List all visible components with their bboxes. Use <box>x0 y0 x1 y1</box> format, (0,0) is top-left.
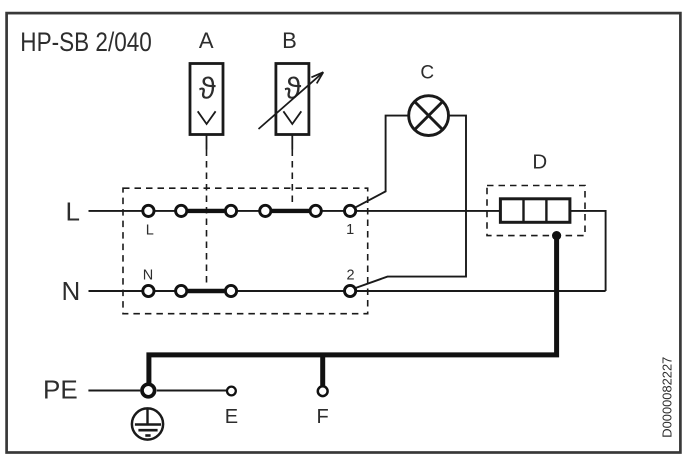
svg-text:HP-SB 2/040: HP-SB 2/040 <box>20 27 152 57</box>
wire PE to terminal E <box>157 390 227 392</box>
terminal L row 3 <box>225 205 236 216</box>
svg-text:ϑ: ϑ <box>199 71 216 105</box>
svg-text:1: 1 <box>346 222 354 238</box>
PE junction dot on heater D <box>552 231 561 240</box>
wire L <box>89 210 501 212</box>
wire N <box>89 290 606 292</box>
control link from B (dashed) <box>291 135 293 207</box>
switch contact (closed) N pole <box>188 289 225 293</box>
svg-text:L: L <box>66 196 80 226</box>
wire: lamp C to terminal 2 (N) <box>356 116 466 288</box>
svg-text:F: F <box>316 406 328 428</box>
terminal F <box>318 386 328 396</box>
terminal N row 3 <box>225 285 236 296</box>
switch enclosure (dashed) <box>123 188 368 314</box>
svg-text:2: 2 <box>347 268 355 284</box>
wire: heater D to N <box>570 211 606 291</box>
terminal N (input) <box>143 285 154 296</box>
wire: lamp C to terminal 1 (L) <box>356 116 410 208</box>
terminal 2 (output) <box>345 285 356 296</box>
PE branch to F <box>320 353 325 387</box>
terminal N row 2 <box>176 285 187 296</box>
terminal 1 (output) <box>345 205 356 216</box>
protective earth symbol <box>132 408 163 439</box>
svg-text:N: N <box>143 268 153 284</box>
svg-text:A: A <box>199 28 214 53</box>
svg-text:C: C <box>420 63 434 84</box>
terminal L (input) <box>143 205 154 216</box>
PE earthing conductor (thick) <box>149 237 557 384</box>
terminal L row 2 <box>176 205 187 216</box>
svg-text:D0000082227: D0000082227 <box>660 357 675 438</box>
svg-text:N: N <box>62 276 81 306</box>
svg-text:B: B <box>282 28 297 53</box>
enclosure D (dashed) <box>487 186 585 236</box>
terminal E <box>227 387 236 396</box>
terminal L row 5 <box>310 205 321 216</box>
terminal L row 4 <box>260 205 271 216</box>
svg-text:E: E <box>225 406 238 428</box>
signal lamp C <box>409 96 449 136</box>
heating element D <box>500 199 570 223</box>
switch contact (closed) L pole 2 <box>272 209 309 213</box>
wire PE lead <box>88 390 140 392</box>
control link from A (dashed) <box>206 135 208 288</box>
svg-text:PE: PE <box>43 374 78 404</box>
svg-text:L: L <box>146 222 154 238</box>
switch contact (closed) L pole 1 <box>188 209 225 213</box>
thermostat B (adjustable) <box>259 64 324 135</box>
svg-text:ϑ: ϑ <box>285 71 302 105</box>
thermostat A <box>190 64 223 135</box>
svg-text:D: D <box>532 151 547 174</box>
terminal PE <box>142 384 155 397</box>
